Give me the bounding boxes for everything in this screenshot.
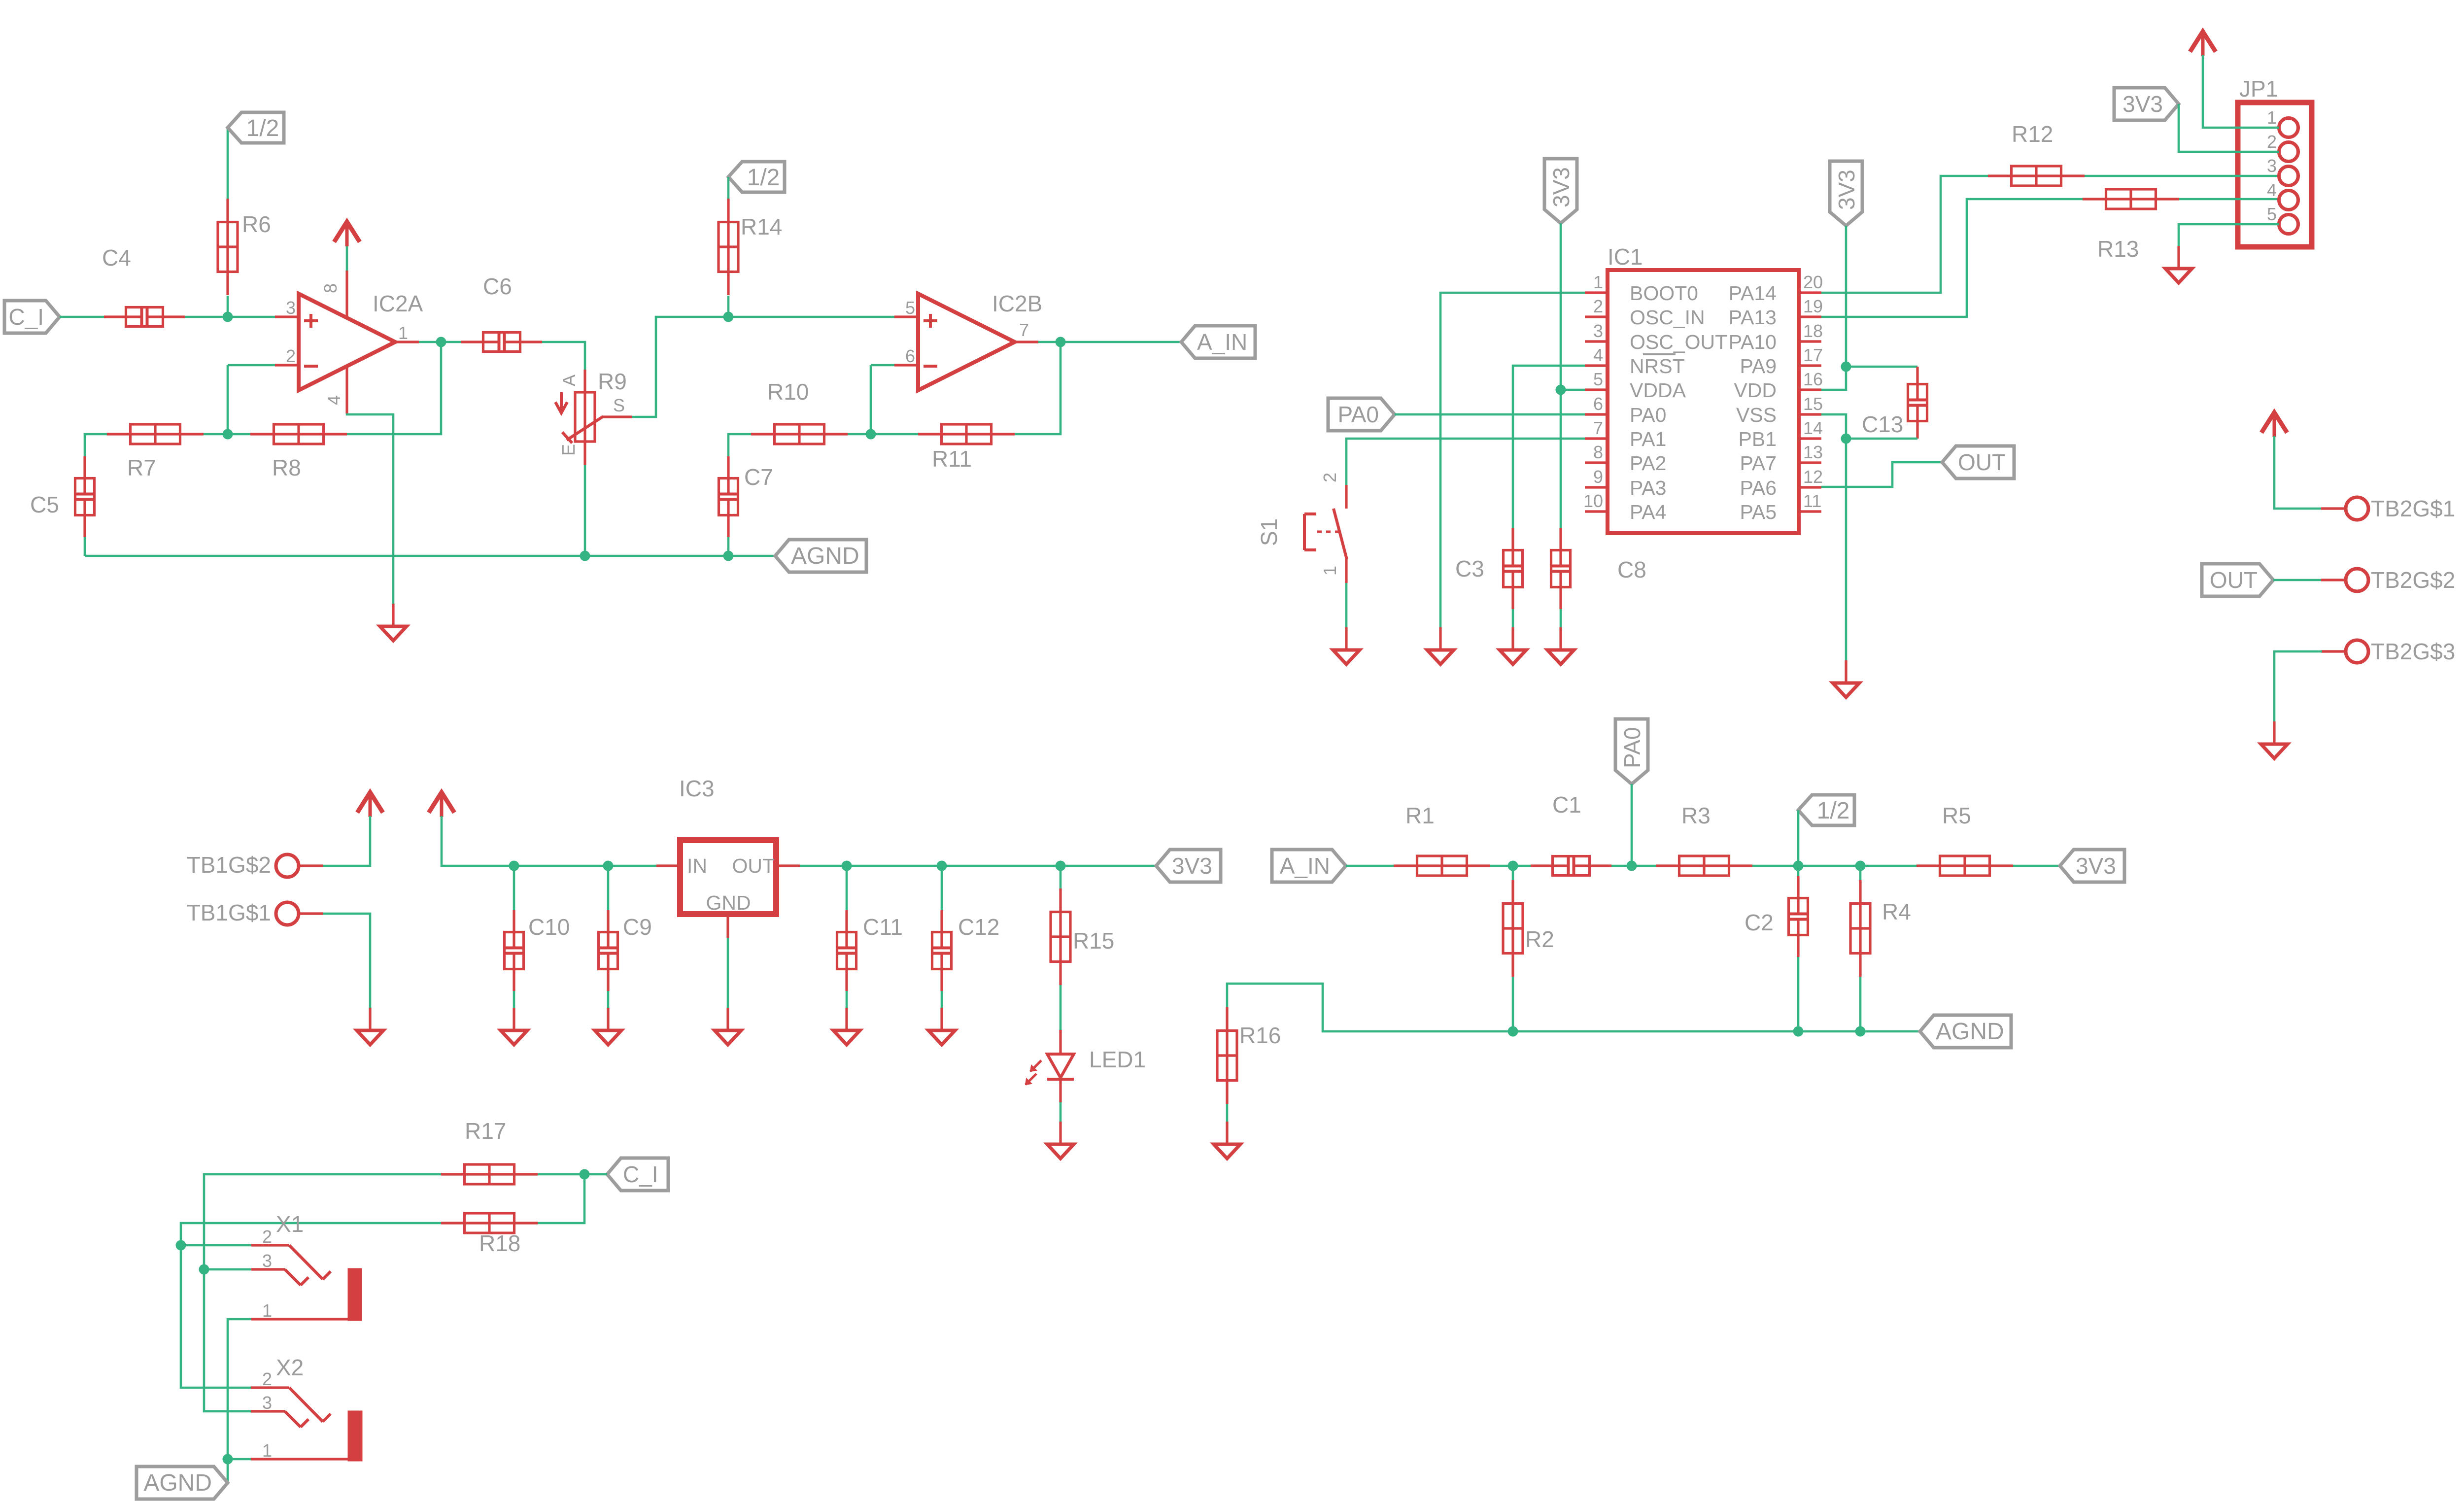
IC1 pin 5 VDDA <box>1585 388 1608 391</box>
svg-text:C_I: C_I <box>623 1161 658 1187</box>
svg-text:C_I: C_I <box>8 304 44 330</box>
wire pin8 to power arrow <box>346 246 348 271</box>
svg-text:7: 7 <box>1593 418 1603 438</box>
wire 1/2 flag to node2 <box>1797 810 1800 866</box>
junction C12 <box>937 861 947 871</box>
IC1 pin 7 PA1 <box>1585 437 1608 440</box>
flag 3V3 regulator output <box>1156 850 1221 882</box>
svg-text:3: 3 <box>286 298 296 318</box>
svg-text:PA0: PA0 <box>1619 727 1645 768</box>
svg-text:2: 2 <box>2267 132 2277 152</box>
svg-text:TB1G$2: TB1G$2 <box>187 852 271 878</box>
svg-text:R18: R18 <box>479 1230 520 1256</box>
wire R7 to node <box>204 433 228 436</box>
svg-text:IC1: IC1 <box>1608 244 1643 270</box>
wire pin6 to feedback node <box>871 364 894 367</box>
junction R4 node <box>1855 861 1866 871</box>
wire R18 to junction column <box>538 1174 584 1223</box>
resistor R12 <box>1988 174 2085 177</box>
svg-text:C11: C11 <box>863 914 903 940</box>
wire BOOT0 to ground <box>1440 293 1585 627</box>
svg-text:1: 1 <box>1593 272 1603 292</box>
wire PA14 to R12 <box>1821 176 1988 293</box>
arrow beside R9 <box>560 392 563 410</box>
wire node to R3 <box>1632 865 1656 867</box>
svg-text:R9: R9 <box>598 369 627 394</box>
wire R17 to C_I junction <box>538 1173 584 1176</box>
svg-text:4: 4 <box>2267 180 2277 200</box>
junction VDDA node <box>1556 385 1566 395</box>
junction C7-AGND <box>723 551 734 561</box>
svg-text:X2: X2 <box>276 1355 304 1380</box>
svg-text:PA2: PA2 <box>1630 452 1666 475</box>
supply flag 1/2 upper-left <box>228 112 284 143</box>
svg-text:3V3: 3V3 <box>2076 853 2116 879</box>
pad TB2G$1 <box>2321 507 2346 510</box>
resistor R3 <box>1656 864 1752 867</box>
power arrow above TB1G$2 wire <box>357 792 383 813</box>
svg-text:C7: C7 <box>744 464 773 490</box>
resistor R6 <box>226 199 229 295</box>
svg-text:OUT: OUT <box>1958 449 2006 475</box>
wire PA13 to R13 <box>1821 199 2083 317</box>
svg-text:OSC_IN: OSC_IN <box>1630 306 1705 329</box>
junction X1 pin2 <box>176 1240 186 1251</box>
svg-text:PA13: PA13 <box>1729 306 1777 329</box>
pad TB2G$3 <box>2321 650 2346 652</box>
IC1 pin 1 BOOT0 <box>1585 291 1608 294</box>
IC1 pin 18 PA10 <box>1799 340 1821 342</box>
svg-text:5: 5 <box>905 298 915 318</box>
svg-text:R8: R8 <box>272 455 301 480</box>
svg-text:X1: X1 <box>276 1211 304 1237</box>
junction IC2A output <box>436 337 446 347</box>
svg-text:PA4: PA4 <box>1630 501 1666 523</box>
IC1 pin 2 OSC_IN <box>1585 315 1608 318</box>
svg-text:VSS: VSS <box>1736 404 1777 426</box>
wire R14 to node <box>727 296 730 317</box>
flag A_IN to filter <box>1272 850 1346 882</box>
svg-text:15: 15 <box>1803 394 1823 414</box>
junction R3/C2 node <box>1793 861 1804 871</box>
power arrow above IC2A pin8 <box>334 222 360 242</box>
svg-text:1/2: 1/2 <box>1817 798 1850 824</box>
svg-text:C9: C9 <box>623 914 652 940</box>
junction R15 <box>1056 861 1066 871</box>
resistor R7 <box>107 433 204 435</box>
svg-text:C5: C5 <box>30 492 59 517</box>
IC1 pin 12 PA6 <box>1799 486 1821 488</box>
wire node to R5 <box>1860 865 1916 867</box>
svg-text:A: A <box>559 375 579 386</box>
wire junction to C_I flag <box>584 1173 607 1176</box>
svg-text:IN: IN <box>687 854 707 877</box>
resistor R8 <box>250 433 347 435</box>
svg-text:1: 1 <box>2267 107 2277 128</box>
wire R8 to output node <box>347 342 441 434</box>
wire R17 left down jack column A <box>204 1174 441 1411</box>
ground below IC2A <box>392 604 394 626</box>
svg-text:C4: C4 <box>102 245 131 271</box>
svg-text:R5: R5 <box>1942 803 1971 828</box>
wire node to R8 <box>228 433 250 436</box>
svg-text:3: 3 <box>262 1393 272 1413</box>
IC1 pin 15 VSS <box>1799 413 1821 415</box>
svg-text:C1: C1 <box>1552 792 1581 818</box>
svg-text:2: 2 <box>1593 296 1603 316</box>
IC1 pin 9 PA3 <box>1585 486 1608 488</box>
ground below JP1 <box>2177 246 2180 269</box>
svg-text:TB2G$2: TB2G$2 <box>2371 567 2455 593</box>
svg-text:9: 9 <box>1593 467 1603 487</box>
wire PA0 flag to pin6 <box>1395 413 1585 416</box>
svg-text:JP1: JP1 <box>2239 76 2278 102</box>
capacitor C8 <box>1559 528 1562 565</box>
flag PA0 above filter <box>1615 719 1648 784</box>
capacitor C9 <box>607 910 609 947</box>
svg-text:8: 8 <box>1593 442 1603 462</box>
wire node to pin5 <box>728 316 894 318</box>
IC1 pin 17 PA9 <box>1799 364 1821 367</box>
wire node2 to R4 node <box>1798 865 1860 867</box>
svg-text:PA5: PA5 <box>1740 501 1777 523</box>
svg-text:C6: C6 <box>483 273 512 299</box>
wire C11 to ground <box>846 866 848 910</box>
wire node to pin3 <box>228 316 275 318</box>
junction R1/R2/C1 <box>1508 861 1518 871</box>
ground below S1 <box>1345 627 1347 650</box>
wire A_IN to R1 <box>1346 865 1394 867</box>
svg-text:C2: C2 <box>1745 910 1774 935</box>
resistor R4 <box>1859 880 1861 977</box>
wire TB1G$2 to power arrow <box>323 816 370 866</box>
svg-text:PA1: PA1 <box>1630 428 1666 450</box>
svg-text:C10: C10 <box>528 914 570 940</box>
wire C_I to C4 <box>60 316 104 318</box>
wire R5 to 3V3 flag <box>2013 865 2060 867</box>
wire rail to R15 <box>1060 866 1062 888</box>
svg-text:C3: C3 <box>1455 556 1484 581</box>
svg-text:VDDA: VDDA <box>1630 379 1686 402</box>
svg-text:IC3: IC3 <box>679 776 715 801</box>
wire X2 pin1 junction <box>228 1458 251 1461</box>
svg-text:1: 1 <box>262 1300 272 1321</box>
ground below TB2G$3 <box>2273 721 2275 744</box>
svg-text:17: 17 <box>1803 345 1823 365</box>
resistor R13 <box>2083 198 2179 200</box>
svg-text:6: 6 <box>905 346 915 366</box>
svg-text:S1: S1 <box>1256 518 1282 546</box>
junction R2-AGND <box>1508 1026 1518 1037</box>
svg-text:12: 12 <box>1803 467 1823 487</box>
capacitor C3 <box>1511 528 1514 565</box>
junction VSS/C13 bottom <box>1841 434 1851 444</box>
svg-text:GND: GND <box>706 891 751 914</box>
flag 3V3 to JP1 pin2 <box>2114 88 2179 120</box>
wire C9 to ground <box>607 866 610 910</box>
svg-text:PA9: PA9 <box>1740 355 1777 377</box>
resistor R2 <box>1511 880 1514 977</box>
svg-text:1: 1 <box>398 323 408 343</box>
wire LED1 to ground <box>1060 1102 1062 1122</box>
wire R4 to AGND rail <box>1859 977 1862 1031</box>
wire output to A_IN flag <box>1038 341 1181 343</box>
capacitor C7 <box>727 456 729 493</box>
svg-text:PA0: PA0 <box>1337 402 1379 427</box>
junction R9-AGND <box>580 551 590 561</box>
IC1 pin 4 NRST <box>1585 364 1608 367</box>
wire C6 to R9 <box>542 342 585 370</box>
svg-text:R2: R2 <box>1525 926 1554 952</box>
svg-text:R10: R10 <box>767 379 809 405</box>
wire R3 to node2 <box>1752 865 1798 867</box>
ground below R16 <box>1226 1122 1228 1144</box>
wire R16 bottom to ground <box>1226 1104 1229 1123</box>
svg-text:BOOT0: BOOT0 <box>1630 282 1698 305</box>
svg-text:S: S <box>613 395 625 415</box>
wire junction to X1 pin3 <box>204 1268 251 1271</box>
resistor R10 <box>751 433 848 435</box>
flag A_IN output <box>1181 326 1255 358</box>
svg-text:R11: R11 <box>932 446 972 472</box>
svg-text:18: 18 <box>1803 321 1823 341</box>
svg-text:NRST: NRST <box>1630 355 1685 377</box>
IC1 pin 14 PB1 <box>1799 437 1821 440</box>
svg-text:AGND: AGND <box>143 1470 212 1496</box>
wire VSS column to ground <box>1845 439 1848 660</box>
svg-text:R1: R1 <box>1405 803 1435 828</box>
wire C1 to PA0 node <box>1611 865 1632 867</box>
svg-text:R4: R4 <box>1882 899 1911 924</box>
resistor R15 <box>1059 888 1061 985</box>
wire C7 to AGND rail <box>727 537 730 556</box>
wire 3V3 down to VDD junction <box>1845 226 1848 367</box>
svg-text:R16: R16 <box>1239 1023 1281 1048</box>
resistor R1 <box>1394 864 1490 867</box>
wire TB1G$1 to ground <box>323 914 370 1008</box>
flag 3V3 above VDDA <box>1544 159 1577 223</box>
wire node to R11 <box>871 433 918 436</box>
flag C_I input <box>4 301 60 333</box>
svg-text:1: 1 <box>262 1440 272 1461</box>
switch S1 <box>1345 485 1347 509</box>
flag 3V3 at filter end <box>2060 850 2124 882</box>
JP1 pin 3 <box>2279 167 2298 186</box>
pad TB1G$2 <box>299 864 323 867</box>
ground below IC3 <box>726 1008 729 1030</box>
wire R6 bottom to node <box>227 296 229 317</box>
ground below C10 <box>513 1008 515 1030</box>
svg-text:10: 10 <box>1583 491 1603 511</box>
wire node to VDDA pin <box>1561 389 1585 391</box>
power arrow above TB2G$1 <box>2261 412 2287 433</box>
junction IC2B pin5 node <box>723 312 734 322</box>
junction R4-AGND <box>1855 1026 1866 1037</box>
flag PA0 to pin6 <box>1328 398 1395 431</box>
op-amp IC2A <box>299 294 395 390</box>
IC1 pin 19 PA13 <box>1799 315 1821 318</box>
AGND rail of analog stage <box>85 555 774 557</box>
wire arrow to TB2G$1 <box>2274 436 2322 509</box>
wire R15 to LED1 <box>1060 985 1062 1030</box>
ground below VSS <box>1845 660 1847 683</box>
svg-text:R12: R12 <box>2012 121 2053 147</box>
wire JP1 pin5 to ground <box>2179 224 2279 246</box>
svg-text:R14: R14 <box>741 214 782 239</box>
junction IC2B output <box>1056 337 1066 347</box>
audio jack X1 <box>251 1244 289 1246</box>
supply flag 1/2 above R14 <box>728 162 785 192</box>
svg-text:3V3: 3V3 <box>2122 91 2163 117</box>
wire R12 to JP1 pin3 <box>2085 175 2279 177</box>
wire C4 to node <box>185 316 228 318</box>
ground below C8 <box>1559 627 1562 650</box>
capacitor C12 <box>940 910 943 947</box>
node junction at IC2A pin3 <box>223 312 233 322</box>
svg-text:OUT: OUT <box>732 854 775 877</box>
svg-text:R3: R3 <box>1681 803 1711 828</box>
JP1 pin 2 <box>2279 142 2298 162</box>
capacitor C10 <box>513 910 515 947</box>
capacitor C2 <box>1797 876 1799 913</box>
svg-text:TB2G$1: TB2G$1 <box>2371 496 2455 521</box>
flag AGND at jacks <box>137 1467 228 1499</box>
JP1 pin 1 <box>2279 118 2298 137</box>
flag 3V3 above VDD <box>1830 161 1862 226</box>
svg-text:PA0: PA0 <box>1630 404 1666 426</box>
potentiometer R9 <box>583 370 586 392</box>
junction C2-AGND <box>1793 1026 1804 1037</box>
ground below C12 <box>940 1008 943 1030</box>
svg-text:2: 2 <box>262 1369 272 1389</box>
IC1 pin 10 PA4 <box>1585 510 1608 512</box>
supply flag 1/2 at filter <box>1798 795 1854 825</box>
JP1 pin 4 <box>2279 191 2298 210</box>
wire power arrow to JP1 pin1 <box>2203 55 2279 128</box>
junction PA0 node <box>1627 861 1637 871</box>
svg-text:PA7: PA7 <box>1740 452 1777 475</box>
svg-text:IC2B: IC2B <box>992 291 1042 316</box>
junction R10/R11 node <box>866 429 876 440</box>
svg-text:19: 19 <box>1803 296 1823 316</box>
junction VDD/C13 top <box>1841 362 1851 372</box>
capacitor C6 <box>461 341 498 343</box>
svg-text:A_IN: A_IN <box>1197 329 1247 355</box>
LED LED1 <box>1059 1030 1061 1054</box>
wire C12 to ground <box>941 866 943 910</box>
svg-text:A_IN: A_IN <box>1280 853 1330 879</box>
svg-text:8: 8 <box>320 283 341 293</box>
flag OUT to TB2G$2 <box>2202 564 2273 596</box>
ground BOOT0 <box>1439 627 1441 650</box>
svg-text:C13: C13 <box>1862 411 1903 437</box>
wire input rail <box>514 865 656 867</box>
wire 3V3 flag to JP1 pin2 <box>2179 104 2279 152</box>
svg-text:3V3: 3V3 <box>1834 170 1859 210</box>
svg-text:C12: C12 <box>958 914 999 940</box>
wire node to R2 <box>1512 866 1514 880</box>
svg-text:1/2: 1/2 <box>246 115 279 141</box>
wire junction to C13 top <box>1846 366 1917 368</box>
capacitor C5 <box>83 456 86 493</box>
wire PA6 to OUT flag <box>1821 462 1942 487</box>
wire 3V3 output rail <box>800 865 1156 867</box>
wire C13 bottom to VSS node <box>1846 438 1917 440</box>
wire R7 left to C5 <box>85 434 107 456</box>
svg-text:4: 4 <box>1593 345 1603 365</box>
wire R10 left to C7 <box>728 434 751 456</box>
svg-text:1: 1 <box>1320 566 1340 576</box>
ground below C11 <box>845 1008 848 1030</box>
svg-text:3: 3 <box>262 1251 272 1271</box>
svg-text:LED1: LED1 <box>1089 1047 1146 1072</box>
wire PA1 to switch S1 <box>1346 439 1585 485</box>
wire R11 to output node <box>1015 342 1061 434</box>
junction C11 <box>842 861 852 871</box>
regulator IC3 body <box>680 840 776 914</box>
svg-text:R7: R7 <box>127 455 156 480</box>
ground below C3 <box>1511 627 1514 650</box>
svg-text:13: 13 <box>1803 442 1823 462</box>
svg-text:6: 6 <box>1593 394 1603 414</box>
wire 3V3 to VDDA node <box>1560 223 1562 390</box>
wire NRST to C3 <box>1513 366 1585 528</box>
wire output to C6 <box>419 341 461 343</box>
wire TB2G$3 to ground <box>2274 651 2322 721</box>
capacitor C4 <box>104 315 140 318</box>
resistor R14 <box>727 199 729 295</box>
wire C3 to ground <box>1512 609 1514 627</box>
IC IC1 body <box>1608 270 1799 533</box>
power arrow at regulator input <box>429 792 454 813</box>
svg-text:20: 20 <box>1803 272 1823 292</box>
IC1 pin 3 OSC_OUT <box>1585 340 1608 342</box>
wire junction to X1 pin2 <box>181 1244 251 1247</box>
ground below C9 <box>607 1008 609 1030</box>
IC1 pin 6 PA0 <box>1585 413 1608 415</box>
svg-text:PA10: PA10 <box>1729 331 1777 353</box>
wire R10 to node <box>848 433 871 436</box>
svg-text:11: 11 <box>1803 491 1821 511</box>
svg-text:4: 4 <box>324 395 344 405</box>
wire node to C1 <box>1513 865 1531 867</box>
resistor R17 <box>441 1173 538 1175</box>
audio jack X2 <box>251 1386 289 1389</box>
svg-text:14: 14 <box>1803 418 1823 438</box>
svg-text:R15: R15 <box>1073 928 1114 954</box>
ground below TB1G$1 <box>369 1008 371 1030</box>
ground below LED1 <box>1059 1122 1061 1144</box>
flag C_I at jacks <box>607 1158 668 1191</box>
junction X1 pin3 <box>199 1264 209 1275</box>
resistor R16 <box>1226 1007 1228 1104</box>
wire OUT flag to TB2G$2 <box>2273 579 2322 581</box>
wire node down to C8 <box>1560 390 1562 528</box>
junction C10 <box>509 861 519 871</box>
wire R9 bottom to AGND rail <box>584 465 586 556</box>
IC1 pin 8 PA2 <box>1585 461 1608 464</box>
svg-text:R6: R6 <box>242 211 271 237</box>
svg-text:1/2: 1/2 <box>747 165 780 191</box>
svg-text:PB1: PB1 <box>1739 428 1777 450</box>
wire R1 to node <box>1490 865 1513 867</box>
wire PA0 flag to node <box>1631 784 1633 866</box>
svg-text:PA6: PA6 <box>1740 477 1777 499</box>
wire C10 to ground <box>513 866 515 910</box>
svg-text:R17: R17 <box>465 1118 506 1144</box>
pad TB1G$1 <box>299 912 323 915</box>
wire R6 top to 1/2 flag <box>227 128 229 199</box>
